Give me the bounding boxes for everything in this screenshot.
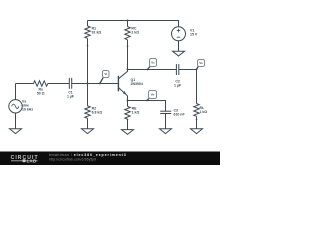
wire: Rs to C1 <box>48 83 70 85</box>
svg-text:2N3904: 2N3904 <box>131 82 143 86</box>
svg-text:Ve: Ve <box>151 93 155 97</box>
svg-text:15 V: 15 V <box>190 33 198 37</box>
wire: Vs to Rs <box>16 83 34 85</box>
voltage probe Vc <box>147 59 157 71</box>
capacitor C3 (610 nF bypass) <box>160 109 185 129</box>
svg-text:LAB: LAB <box>27 158 37 163</box>
wire: node A to Q1 base <box>88 83 119 85</box>
svg-text:http://circuitlab.com/c/95y5p9: http://circuitlab.com/c/95y5p9 <box>49 157 96 161</box>
ground (R2) <box>82 129 94 134</box>
svg-text:Vc: Vc <box>151 61 155 65</box>
capacitor C1 (1 uF) <box>67 78 75 99</box>
ground (RE) <box>122 130 134 135</box>
ground (C3) <box>160 129 172 134</box>
svg-text:Vi: Vi <box>104 72 107 76</box>
resistor RC (1 k&#937;) <box>125 21 139 72</box>
svg-text:10 kHz: 10 kHz <box>22 108 33 112</box>
voltage probe Vi <box>99 71 109 85</box>
svg-text:6.8 kΩ: 6.8 kΩ <box>92 110 103 114</box>
wire: emitter to C3 <box>128 101 166 112</box>
wire: top rail <box>88 21 179 27</box>
capacitor C2 (1 uF) <box>174 64 182 88</box>
node: collector junction <box>127 69 129 71</box>
resistor RL (1 k&#937;) <box>194 104 208 129</box>
ground (Vs) <box>10 129 22 134</box>
node: emitter junction <box>127 100 129 102</box>
svg-text:91 kΩ: 91 kΩ <box>92 30 102 34</box>
CircuitLab logo <box>11 155 39 164</box>
svg-text:1 kΩ: 1 kΩ <box>200 110 208 114</box>
svg-text:50 Ω: 50 Ω <box>37 91 45 95</box>
resistor R2 (6.8 k&#937;) <box>85 84 103 129</box>
svg-text:Vo: Vo <box>199 61 203 65</box>
svg-text:1 kΩ: 1 kΩ <box>131 30 139 34</box>
dc source V1 (15 V) <box>172 27 198 51</box>
wire: C2 to RL corner <box>179 70 197 104</box>
ac source Vs (sine 10 kHz) <box>9 84 34 129</box>
ground (RL) <box>191 129 203 134</box>
footer bar <box>0 152 220 166</box>
ground (V1) <box>173 51 185 56</box>
svg-text:610 nF: 610 nF <box>174 113 186 117</box>
svg-text:1 kΩ: 1 kΩ <box>132 110 140 114</box>
wire: collector to C2 <box>128 69 177 71</box>
voltage probe Vo <box>196 60 205 71</box>
resistor RE (1 k&#937;) <box>125 106 140 129</box>
svg-text:1 µF: 1 µF <box>67 95 75 99</box>
node A (R1/R2/base junction) <box>87 83 89 85</box>
resistor R1 (91 k&#937;) <box>85 21 102 84</box>
resistor Rs (50 &#937;) <box>34 81 48 96</box>
voltage probe Ve <box>146 91 157 102</box>
wire: C1 to node A <box>72 83 88 85</box>
svg-text:1 µF: 1 µF <box>174 84 182 88</box>
transistor Q1 (2N3904 NPN) <box>118 71 142 106</box>
node: rail/RC junction <box>127 20 129 22</box>
